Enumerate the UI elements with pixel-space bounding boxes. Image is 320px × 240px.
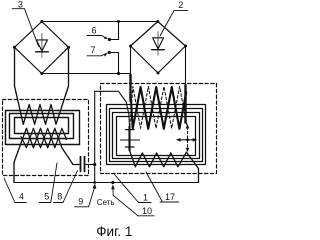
label 7 with arrow leader bbox=[87, 53, 108, 57]
svg-text:10: 10 bbox=[142, 206, 152, 216]
winding secondary of transformer 4 (to mains and capacitor) bbox=[14, 128, 79, 182]
winding of transformer 1 (rear, dashed) bbox=[130, 87, 188, 129]
label 9 with arrow to mains bus bbox=[75, 183, 97, 207]
winding 5 primary of transformer 4 with leads to bridge 3 AC vertices bbox=[15, 47, 69, 124]
dashed enclosure 1 (right transformer) bbox=[101, 84, 217, 174]
node: mains terminal junction bbox=[111, 181, 114, 184]
dashed enclosure 4 (left transformer) bbox=[3, 100, 89, 176]
diode inside bridge 2 bbox=[152, 32, 165, 56]
diode inside bridge 3 bbox=[36, 34, 49, 58]
wire: right bridge left vertex lead into transformer 1 bbox=[130, 46, 132, 76]
core of transformer 4: middle rectangle bbox=[10, 114, 74, 139]
svg-text:9: 9 bbox=[78, 197, 83, 207]
svg-text:2: 2 bbox=[178, 0, 183, 10]
core of transformer 1: rectangle 1 bbox=[107, 105, 206, 165]
wire: top DC bus between bridges bbox=[42, 21, 158, 23]
node: junction of contact-7 drop on DC link bbox=[117, 72, 120, 75]
svg-text:4: 4 bbox=[19, 192, 24, 202]
label 8 leader bbox=[54, 171, 78, 203]
winding secondary of transformer 4 (rear strokes) bbox=[21, 128, 67, 148]
core of transformer 4: inner rectangle bbox=[15, 118, 69, 134]
movable core 17: horizontal double arrow bbox=[179, 139, 195, 141]
capacitor 8 bbox=[81, 157, 95, 172]
node: right bridge left vertex bbox=[129, 45, 132, 48]
wire: link from vertical to transformer 1 tap bbox=[95, 91, 130, 126]
node: left bridge left vertex bbox=[13, 46, 16, 49]
tap post with tick bars (left cross) bbox=[121, 127, 140, 151]
wire: mains bus bbox=[14, 182, 199, 184]
node: capacitor-link terminal on bus bbox=[93, 181, 96, 184]
node: right bridge right vertex bbox=[184, 45, 187, 48]
svg-text:Фиг. 1: Фиг. 1 bbox=[96, 224, 132, 239]
bridge rectifier 3 (left diamond) bbox=[15, 22, 69, 74]
label 6 with arrow leader bbox=[87, 36, 108, 40]
label 1 leader bbox=[115, 175, 152, 203]
core of transformer 1: rectangle 2 bbox=[110, 109, 203, 162]
movable core 17: dashed vertical double arrow bbox=[176, 124, 197, 152]
svg-text:Сеть: Сеть bbox=[97, 198, 115, 207]
svg-text:1: 1 bbox=[143, 192, 148, 202]
bridge rectifier 2 (right diamond) bbox=[131, 22, 186, 74]
svg-text:6: 6 bbox=[91, 26, 96, 36]
wire: right bridge right vertex lead into transformer 1 bbox=[185, 46, 187, 86]
node: left bridge bottom vertex bbox=[40, 72, 43, 75]
label 2 bbox=[160, 11, 188, 36]
node: right bridge top vertex bbox=[156, 20, 159, 23]
svg-text:3: 3 bbox=[18, 0, 23, 10]
winding output of transformer 1 (bottom zigzag) bbox=[130, 150, 199, 182]
wire: vertical link between boxes (capacitor to mains bus) bbox=[94, 91, 96, 182]
core of transformer 4: outer rectangle bbox=[6, 111, 80, 145]
svg-text:17: 17 bbox=[165, 192, 175, 202]
node: left bridge right vertex bbox=[67, 46, 70, 49]
wire: horizontal DC link from left bridge bottom to right bridge left-vertex drop bbox=[42, 73, 131, 75]
node: top-line junction to contact 6 bbox=[117, 20, 120, 23]
node: capacitor junction on vertical link bbox=[93, 163, 96, 166]
label 3 bbox=[12, 9, 38, 47]
switch contact 7: drop to dc link bbox=[108, 51, 119, 74]
svg-text:8: 8 bbox=[57, 192, 62, 202]
node: right bridge bottom vertex bbox=[157, 72, 160, 75]
label 5 leader bbox=[39, 163, 57, 203]
node: left bridge top vertex bbox=[40, 20, 43, 23]
label 4 leader bbox=[4, 178, 26, 203]
core of transformer 1: rectangle 4 bbox=[117, 117, 196, 156]
switch contact 6: drop from top line bbox=[108, 22, 119, 42]
label 17 leader bbox=[146, 172, 179, 202]
core of transformer 1: rectangle 3 bbox=[113, 113, 200, 159]
winding of transformer 1 (main, solid) bbox=[131, 87, 186, 129]
svg-text:5: 5 bbox=[44, 192, 49, 202]
label 10 with arrow to mains bus bbox=[111, 185, 154, 216]
svg-text:7: 7 bbox=[90, 45, 95, 55]
